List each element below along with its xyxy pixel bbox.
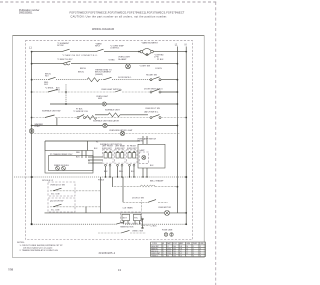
clock timer box	[134, 214, 142, 220]
wire right L1 bus	[176, 47, 178, 213]
svg-text:*2 RED: *2 RED	[108, 59, 115, 61]
svg-text:DP SW: DP SW	[57, 45, 64, 47]
outer frame top edge darker	[13, 35, 205, 37]
fuse element	[142, 218, 144, 229]
svg-text:*C SURF RLY 1B: *C SURF RLY 1B	[73, 111, 88, 113]
vertical dotted feed to clock	[140, 201, 142, 213]
wire from box B	[50, 206, 100, 208]
svg-text:VOLT: VOLT	[173, 243, 177, 245]
svg-text:.4: .4	[193, 256, 194, 258]
vertical branch x112.5	[112, 177, 114, 187]
svg-text:P1 BLK: P1 BLK	[157, 59, 164, 61]
svg-text:N: N	[185, 44, 187, 47]
switch on ground row	[116, 222, 125, 225]
svg-text:P9 BLK: P9 BLK	[98, 180, 105, 182]
svg-text:BLK: BLK	[76, 157, 80, 159]
switch on row1 left	[62, 49, 70, 51]
svg-text:FUSE LINE: FUSE LINE	[162, 230, 173, 232]
wire ground row y223.5	[31, 223, 187, 225]
svg-text:DOOR SWITCH N.O.: DOOR SWITCH N.O.	[144, 88, 164, 90]
switch on row6 b	[77, 115, 86, 119]
switch in box A	[53, 188, 62, 191]
transformer terminal stub b	[85, 151, 87, 159]
svg-text:1A LAMP: 1A LAMP	[118, 58, 127, 61]
svg-text:FGF379WECF,FGF379WECE,FGF379WE: FGF379WECF,FGF379WECE,FGF379WECD,FGF379W…	[69, 11, 184, 14]
corner row10 to transformer box	[44, 141, 46, 151]
svg-text:4: 4	[163, 256, 164, 258]
switch on row3 b	[104, 77, 112, 79]
transformer plug pins	[56, 166, 66, 170]
legend table	[151, 242, 206, 258]
svg-text:BLK: BLK	[131, 171, 135, 173]
wire row10 solid	[45, 140, 140, 142]
svg-text:13: 13	[118, 268, 121, 272]
svg-text:N.O. COM: N.O. COM	[51, 194, 60, 196]
wire bell dotted	[113, 186, 179, 188]
switch in box B	[53, 204, 62, 207]
svg-text:RTC: RTC	[134, 218, 138, 220]
svg-text:N.C. COM: N.C. COM	[51, 210, 60, 212]
svg-text:.6: .6	[200, 256, 201, 258]
surface sw box2	[115, 150, 126, 163]
wire right N bus	[185, 47, 187, 225]
clock dashed box	[121, 212, 142, 223]
wire neutral dashed row y179	[14, 176, 187, 178]
svg-text:DOOR LT SW: DOOR LT SW	[132, 197, 144, 199]
oven lamp symbol	[126, 64, 131, 69]
svg-text:BLK: BLK	[94, 148, 98, 150]
svg-text:OHM: OHM	[186, 243, 191, 245]
svg-text:5995335851: 5995335851	[19, 12, 33, 15]
right rear surface unit box	[138, 144, 165, 168]
switch on row6 right	[150, 115, 161, 119]
svg-text:SPARK MODULE: SPARK MODULE	[54, 164, 70, 167]
vertical branch x123	[122, 177, 124, 202]
wire convection row y211.5	[45, 212, 188, 214]
wire row8 indicator	[31, 125, 179, 127]
transformer box outer	[45, 151, 93, 174]
diagram dashed border	[25, 41, 192, 240]
svg-text:L1: L1	[29, 46, 32, 49]
svg-text:LIGHT: LIGHT	[35, 126, 41, 128]
vertical branch x100.4	[99, 177, 101, 213]
svg-text:NOTES:: NOTES:	[17, 242, 25, 244]
svg-text:SURFACE UNIT: SURFACE UNIT	[105, 108, 120, 111]
stub wires below switch boxes	[106, 166, 148, 177]
svg-text:CLK TIMER: CLK TIMER	[123, 208, 134, 210]
transformer terminal stub a	[81, 151, 83, 159]
svg-text:LATCH SW N.C.: LATCH SW N.C.	[144, 110, 159, 113]
svg-text:40: 40	[167, 256, 169, 258]
svg-text:BROIL: BROIL	[80, 68, 87, 70]
svg-text:7/98: 7/98	[8, 267, 14, 271]
vertical feed x87.5	[87, 141, 89, 151]
transformer box inner	[49, 156, 94, 171]
surface unit zigzag row7	[108, 113, 120, 117]
svg-text:L2 BLK: L2 BLK	[151, 226, 158, 228]
indicator lamp row9	[120, 131, 124, 135]
jog connector row6-row8	[56, 118, 58, 126]
svg-text:319050285-2: 319050285-2	[99, 253, 116, 255]
svg-text:W: W	[88, 160, 90, 162]
wire row3 broil circuit	[31, 79, 179, 81]
svg-text:WIRING DIAGRAM: WIRING DIAGRAM	[92, 28, 114, 31]
clock stubs	[124, 221, 140, 225]
svg-text:0.3: 0.3	[180, 256, 182, 258]
switch on row2	[62, 61, 71, 64]
svg-text:BROIL: BROIL	[78, 71, 85, 73]
svg-text:LAMP: LAMP	[140, 149, 146, 152]
wire row2 oven circuit	[31, 63, 179, 65]
svg-text:DOOR SW N.O.: DOOR SW N.O.	[118, 77, 132, 79]
wire row5 lamp line	[50, 103, 178, 105]
svg-text:OVEN LIGHT SWITCH: OVEN LIGHT SWITCH	[101, 89, 121, 91]
svg-text:SURFACE UNIT INDICATOR: SURFACE UNIT INDICATOR	[93, 119, 120, 122]
svg-text:SURFACE UNIT SW: SURFACE UNIT SW	[42, 109, 61, 112]
svg-text:OVEN LT: OVEN LT	[151, 256, 158, 258]
svg-text:*C NEW 700 RLY CONTACT N.O.: *C NEW 700 RLY CONTACT N.O.	[62, 54, 98, 57]
surface coil zigzag	[86, 116, 97, 120]
svg-text:CAUTION: Use the part number: CAUTION: Use the part number on all orde…	[71, 15, 168, 18]
wire row7 surface solid	[95, 114, 148, 116]
svg-text:BELL TRANSF: BELL TRANSF	[150, 179, 164, 182]
svg-text:* LIGHT SW: * LIGHT SW	[139, 66, 150, 68]
svg-text:pilot DOOR SW: pilot DOOR SW	[50, 200, 63, 203]
svg-text:WATT: WATT	[167, 242, 172, 245]
page margin dashed border right	[215, 2, 217, 285]
door light switch wire	[123, 200, 168, 203]
svg-text:*C NEW 700 RLY: *C NEW 700 RLY	[57, 59, 73, 61]
cluster terminal circles	[105, 164, 135, 166]
switch on row1 mid	[96, 49, 104, 51]
svg-text:2. TRANSFORM WIRE AT W CONN P: 2. TRANSFORM WIRE AT W CONN PLUG	[20, 249, 59, 252]
svg-text:P5 TRANSFORMER 120V: P5 TRANSFORMER 120V	[50, 153, 73, 156]
svg-text:TIMER MOTOR: TIMER MOTOR	[120, 227, 134, 229]
wire dotted row y235	[98, 230, 146, 233]
warner light	[29, 129, 34, 134]
svg-text:OVEN LT SW: OVEN LT SW	[132, 231, 143, 233]
svg-text:MOT: MOT	[123, 218, 128, 220]
notes block	[17, 242, 63, 252]
svg-text:SURF UNIT: SURF UNIT	[115, 148, 125, 150]
convection motor	[165, 210, 170, 215]
broil element zigzag	[87, 78, 99, 82]
svg-text:OVEN DO LT SW: OVEN DO LT SW	[50, 185, 65, 187]
svg-text:OVEN MOTOR: OVEN MOTOR	[158, 207, 172, 209]
svg-text:RLY: RLY	[45, 76, 49, 78]
svg-text:BLK: BLK	[104, 171, 108, 173]
outer frame	[13, 36, 205, 258]
clock motor box	[122, 214, 130, 220]
fuse line lamps	[162, 230, 173, 237]
switch on row3 right	[150, 77, 161, 81]
switch on row4 right	[150, 89, 161, 93]
wire left L1 bus	[31, 52, 33, 225]
wire row6 surface dotted	[31, 117, 187, 119]
stub wires above switch boxes	[143, 136, 147, 144]
svg-text:HI LIMIT SW: HI LIMIT SW	[146, 74, 157, 76]
wire from box A	[50, 190, 100, 192]
oven door switch dashed box B	[48, 198, 75, 212]
switch on row3 a	[48, 77, 56, 79]
svg-text:CODE: CODE	[152, 243, 158, 245]
oven lamp symbol row5	[102, 102, 106, 106]
lamp in box4	[142, 156, 146, 160]
svg-text:L1: L1	[175, 44, 178, 47]
svg-text:COM N: COM N	[155, 68, 162, 70]
svg-text:DP5 BLK L2: DP5 BLK L2	[42, 180, 54, 182]
svg-text:SURF UNIT: SURF UNIT	[127, 148, 137, 150]
wire row1 bake circuit	[31, 51, 187, 53]
switch on row4	[48, 89, 58, 92]
svg-text:RED: RED	[119, 171, 123, 173]
svg-text:SURF UNIT: SURF UNIT	[102, 148, 112, 150]
switch on row4 mid	[115, 90, 122, 92]
svg-text:DK3: DK3	[56, 90, 60, 92]
svg-text:RED: RED	[76, 152, 81, 154]
svg-text:120: 120	[173, 256, 176, 258]
svg-text:OVEN DR LT SW: OVEN DR LT SW	[145, 108, 160, 110]
wire row9 dotted	[34, 133, 180, 135]
surface sw box1	[103, 150, 114, 163]
svg-text:OVEN INDICATOR LIGHT: OVEN INDICATOR LIGHT	[109, 129, 133, 132]
vertical branch x66	[65, 84, 67, 104]
vertical link x86	[85, 207, 87, 213]
svg-text:DK2: DK2	[44, 84, 49, 86]
svg-text:* BAKE ELEMENT: * BAKE ELEMENT	[141, 42, 158, 45]
svg-text:CONTROL: CONTROL	[110, 48, 119, 50]
clock aux dotted stub	[142, 224, 151, 226]
indicator lamp row8	[103, 123, 107, 127]
bake element symbol	[138, 49, 153, 56]
surface sw feed lines	[88, 157, 103, 163]
switch on row6 a	[45, 115, 55, 118]
svg-text:RPLY: RPLY	[95, 46, 101, 48]
oven door switch dashed box A	[48, 182, 75, 196]
svg-text:BLK: BLK	[150, 165, 154, 167]
page margin dashed border top	[0, 1, 218, 3]
svg-text:P4: P4	[96, 142, 98, 144]
surface sw box3	[127, 150, 138, 163]
wire row4 dotted	[31, 91, 179, 93]
svg-text:*C BROIL: *C BROIL	[45, 88, 55, 90]
svg-text:(3400W): (3400W)	[95, 74, 103, 76]
svg-text:40W: 40W	[98, 98, 102, 100]
bell transformer coil	[140, 185, 155, 187]
cluster x marks	[105, 151, 135, 153]
svg-text:LT SW: LT SW	[137, 141, 143, 143]
junction x66 row4	[65, 91, 67, 93]
